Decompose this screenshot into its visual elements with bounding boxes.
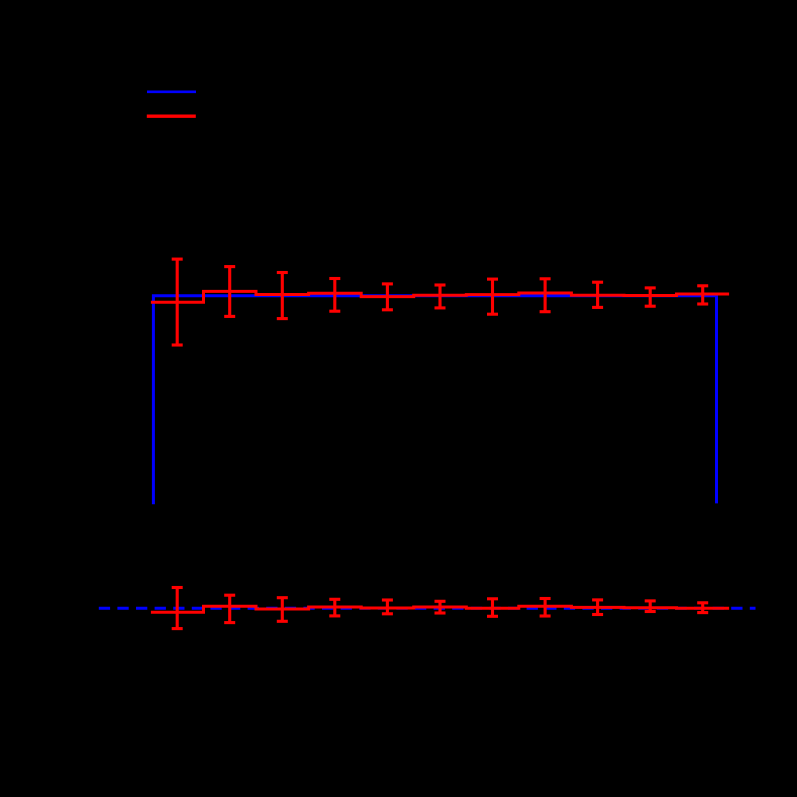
bottom panel error bar 1 <box>172 588 183 629</box>
bottom panel error bar 8 <box>540 599 551 617</box>
top panel error bar 3 <box>277 273 288 319</box>
top panel error bar 9 <box>592 282 603 307</box>
bottom panel error bar 3 <box>277 598 288 622</box>
top panel error bar 2 <box>224 267 235 317</box>
top panel error bar 8 <box>540 279 551 312</box>
top panel error bar 5 <box>382 284 393 310</box>
bottom panel error bar 10 <box>645 601 656 612</box>
top panel error bar 1 <box>172 259 183 345</box>
blue model histogram outline (top panel) <box>153 296 716 504</box>
top panel error bar 4 <box>329 279 340 312</box>
bottom panel error bar 6 <box>435 601 446 613</box>
red data histogram step line (top panel) <box>151 291 729 302</box>
bottom panel error bar 5 <box>382 600 393 614</box>
bottom panel error bar 4 <box>329 599 340 616</box>
top panel error bar 10 <box>645 288 656 306</box>
top panel error bar 7 <box>487 279 498 314</box>
red ratio histogram step line (bottom panel) <box>151 606 729 612</box>
legend red data line <box>147 115 196 118</box>
bottom panel error bar 9 <box>592 600 603 615</box>
bottom panel error bar 7 <box>487 599 498 617</box>
blue dashed reference line at ratio=1 (bottom panel) <box>99 607 756 610</box>
bottom panel error bar 2 <box>224 595 235 622</box>
legend blue model line <box>147 90 196 93</box>
top panel error bar 11 <box>697 286 708 304</box>
bottom panel error bar 11 <box>697 603 708 613</box>
top panel error bar 6 <box>435 285 446 308</box>
